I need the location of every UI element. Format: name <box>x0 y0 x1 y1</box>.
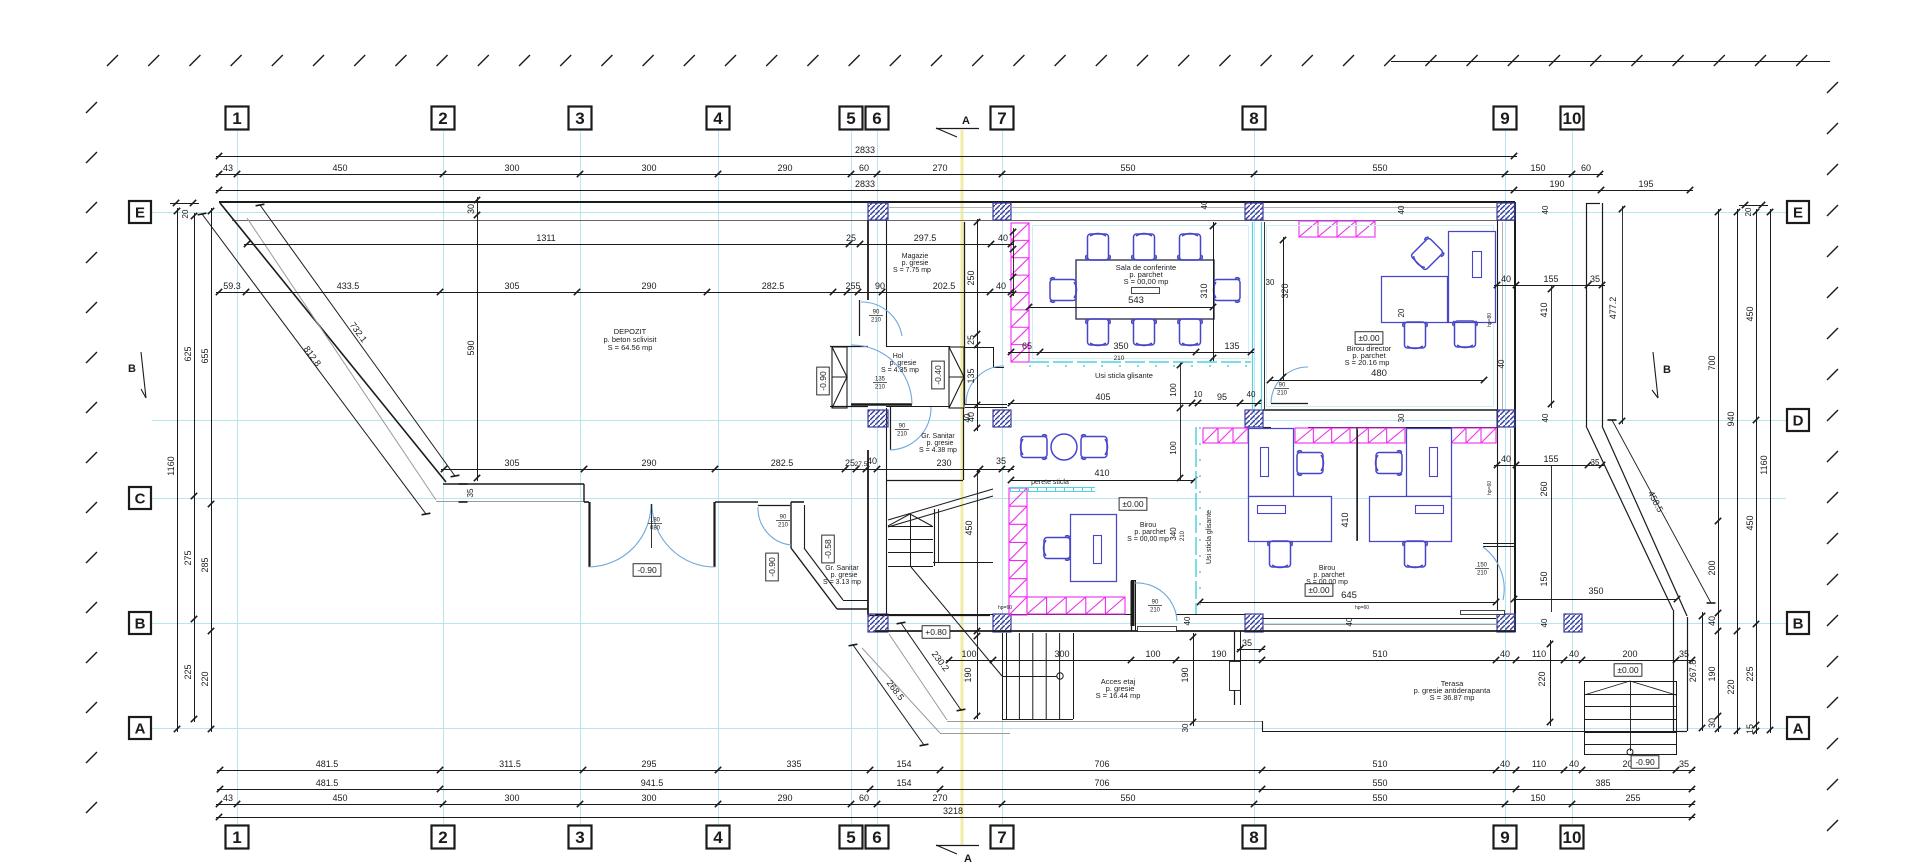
window sill lines right wall <box>1502 222 1504 409</box>
pier hatch grid9 bottom <box>1497 614 1515 632</box>
svg-text:550: 550 <box>1372 793 1387 803</box>
svg-text:35: 35 <box>466 488 475 497</box>
svg-text:20: 20 <box>181 209 190 218</box>
svg-text:405: 405 <box>1095 392 1110 402</box>
svg-text:1160: 1160 <box>1759 455 1769 474</box>
dimension column interior 30 590 at grid 3 <box>477 197 479 481</box>
svg-text:43: 43 <box>223 163 233 173</box>
svg-text:40: 40 <box>1501 274 1511 284</box>
partition between birou rooms <box>1356 428 1358 541</box>
dimension 20 top right <box>1742 202 1748 208</box>
wall central vertical (grid 5-6) <box>867 220 869 300</box>
pier hatch isolated terasa <box>1564 614 1582 632</box>
svg-text:300: 300 <box>641 793 656 803</box>
grid letter bubbles left <box>129 201 151 223</box>
svg-text:190: 190 <box>963 667 973 682</box>
svg-text:645: 645 <box>1341 590 1357 601</box>
svg-text:2833: 2833 <box>855 179 875 189</box>
chairs birou right set A <box>1297 451 1324 476</box>
grid letter bubbles right <box>1787 201 1809 223</box>
svg-text:hp=60: hp=60 <box>998 605 1012 611</box>
svg-text:S = 36.87 mp: S = 36.87 mp <box>1430 693 1475 702</box>
svg-text:3: 3 <box>575 828 584 847</box>
stair handrail with circle <box>1002 676 1057 678</box>
svg-text:p. parchet: p. parchet <box>1313 572 1344 579</box>
svg-text:410: 410 <box>1094 468 1109 478</box>
svg-text:59.3: 59.3 <box>223 281 241 291</box>
svg-text:295: 295 <box>641 759 656 769</box>
svg-text:100: 100 <box>961 649 976 659</box>
dimension 100 100 vertical corridor <box>1180 362 1182 481</box>
pier hatch grid5-6 bottom <box>868 614 888 632</box>
wall sala/director divider (cyan glass) <box>1252 222 1254 409</box>
dimension column right 700 200 40 190 30 <box>1718 209 1720 732</box>
svg-text:B: B <box>135 615 146 632</box>
svg-text:S = 00,00 mp: S = 00,00 mp <box>1124 277 1169 286</box>
svg-text:35: 35 <box>1242 638 1252 648</box>
svg-text:543: 543 <box>1128 295 1144 306</box>
wall gr.sanitar west jamb <box>790 502 792 548</box>
svg-text:230: 230 <box>936 458 951 468</box>
wall right outer <box>1514 202 1516 632</box>
svg-text:200: 200 <box>1707 560 1717 575</box>
svg-text:190: 190 <box>1211 649 1226 659</box>
section line A-A (yellow) <box>961 130 964 846</box>
svg-text:Usi sticla glisante: Usi sticla glisante <box>1206 510 1213 564</box>
dimension column right 1160 <box>1770 209 1772 733</box>
elevation label -0.90 grsanitar rotated <box>766 553 779 581</box>
svg-text:p. gresie: p. gresie <box>831 572 858 579</box>
svg-text:Birou: Birou <box>1140 522 1156 529</box>
svg-text:210: 210 <box>871 318 882 324</box>
svg-text:320: 320 <box>1280 283 1290 298</box>
svg-text:1311: 1311 <box>536 233 555 243</box>
dimension 65 350 135 under sala <box>1008 352 1254 354</box>
svg-text:260: 260 <box>1539 481 1549 496</box>
svg-text:3: 3 <box>575 109 584 128</box>
svg-text:190: 190 <box>1549 179 1564 189</box>
svg-text:080: 080 <box>650 526 661 532</box>
svg-text:305: 305 <box>504 458 519 468</box>
wall birou-director bottom <box>1263 409 1497 411</box>
dimension row top 2833 <box>216 156 1517 158</box>
svg-text:E: E <box>1793 204 1803 221</box>
svg-text:40: 40 <box>1541 205 1550 214</box>
pier hatch grid8 bottom <box>1245 614 1263 632</box>
svg-text:300: 300 <box>504 163 519 173</box>
svg-text:40: 40 <box>1500 759 1510 769</box>
wall jamb door lower birou <box>1131 580 1133 631</box>
svg-text:225: 225 <box>183 664 193 679</box>
svg-text:270: 270 <box>932 793 947 803</box>
wall depozit bottom mid segment <box>584 501 589 503</box>
elevation label -0.90 magazie rotated <box>817 367 830 395</box>
pier hatch grid8 mid <box>1245 410 1263 427</box>
svg-text:210: 210 <box>1477 571 1488 577</box>
svg-text:350: 350 <box>1113 341 1128 351</box>
section marker A top <box>936 128 979 130</box>
elevation label -0.58 rotated <box>822 535 835 563</box>
svg-text:481.5: 481.5 <box>316 778 339 788</box>
svg-text:±0.00: ±0.00 <box>1358 333 1379 343</box>
dimension row top segments 43..60 <box>216 174 1603 176</box>
svg-text:65: 65 <box>1022 341 1032 351</box>
svg-text:385: 385 <box>1595 778 1610 788</box>
terasa entry stair SE <box>1585 682 1677 755</box>
grid axis horizontal lines (cyan) <box>152 212 1786 214</box>
elevation label -0.90 depozit door <box>633 564 661 577</box>
svg-text:+0.80: +0.80 <box>925 627 947 637</box>
door gr.sanitar lower <box>758 505 790 507</box>
svg-text:210: 210 <box>778 523 789 529</box>
dimension 40 ticks on glass wall sala <box>1013 228 1015 296</box>
pier hatch grid8 top <box>1245 203 1263 220</box>
dimension 645 birou <box>1200 602 1496 604</box>
svg-text:154: 154 <box>896 759 911 769</box>
dimension column left 625 275 225 <box>194 213 196 722</box>
svg-text:20: 20 <box>1744 207 1753 216</box>
dimension 405 10 95 40 corridor <box>1008 403 1261 405</box>
svg-text:90: 90 <box>1152 600 1159 606</box>
magenta hatch birou lower-left L horizontal <box>1027 597 1125 614</box>
svg-text:4: 4 <box>713 109 723 128</box>
svg-text:40: 40 <box>1247 390 1256 399</box>
conference chairs bottom row <box>1086 319 1111 346</box>
dimension 450 stair <box>977 470 979 634</box>
svg-text:p. parchet: p. parchet <box>1134 529 1165 536</box>
dimension diagonal 812.8 (slanted wall) <box>202 214 426 514</box>
svg-text:Hol: Hol <box>893 353 904 360</box>
pier hatch grid5-6 mid <box>868 410 888 427</box>
dimension 350 near terasa door <box>1514 599 1677 601</box>
svg-text:7: 7 <box>997 109 1006 128</box>
svg-text:±0.00: ±0.00 <box>1122 499 1143 509</box>
svg-text:9: 9 <box>1500 109 1509 128</box>
desk lower-left birou <box>1071 515 1117 582</box>
svg-text:-0.90: -0.90 <box>767 557 777 577</box>
svg-text:941.5: 941.5 <box>641 778 664 788</box>
svg-text:90: 90 <box>780 515 787 521</box>
svg-text:9: 9 <box>1500 828 1509 847</box>
svg-text:270: 270 <box>932 163 947 173</box>
svg-text:90: 90 <box>875 281 885 291</box>
elevation label +0.80 stairs <box>922 626 950 639</box>
dimension 480 birou director <box>1270 380 1484 382</box>
svg-text:30: 30 <box>1397 413 1406 422</box>
magenta hatch birou top strips <box>1203 428 1248 443</box>
svg-text:290: 290 <box>777 163 792 173</box>
dimension diagonal 732.1 (slanted wall) <box>260 205 455 476</box>
svg-text:7: 7 <box>997 828 1006 847</box>
svg-text:40: 40 <box>1397 205 1406 214</box>
svg-text:311.5: 311.5 <box>499 759 521 769</box>
dimension row interior 305 290 282.5 25 27.5 40 230 35 <box>441 469 1014 471</box>
svg-text:210: 210 <box>1180 530 1186 541</box>
svg-text:90: 90 <box>873 310 880 316</box>
wall top outer <box>219 201 1515 203</box>
svg-text:200: 200 <box>1622 649 1637 659</box>
terasa outline <box>947 721 1262 723</box>
svg-text:110: 110 <box>1532 649 1546 659</box>
svg-text:550: 550 <box>1372 163 1387 173</box>
svg-text:150: 150 <box>1530 163 1545 173</box>
grid axis vertical lines (cyan) <box>237 131 239 824</box>
wall top inner <box>232 220 1515 222</box>
pier hatch grid9 mid <box>1497 410 1515 427</box>
svg-text:480: 480 <box>1371 368 1387 379</box>
dimension row bottom 481.5 941.5 154 706 550 385 <box>217 789 1695 791</box>
dimension 543 conference <box>1029 307 1213 309</box>
dimension column left 1160 <box>177 208 179 732</box>
svg-text:90: 90 <box>1279 383 1286 389</box>
svg-text:450: 450 <box>1745 515 1755 530</box>
svg-text:35: 35 <box>1591 458 1600 467</box>
svg-text:60: 60 <box>859 163 869 173</box>
svg-text:210: 210 <box>1277 391 1288 397</box>
svg-text:290: 290 <box>641 281 656 291</box>
svg-text:20: 20 <box>1397 308 1406 317</box>
svg-text:Gr. Sanitar: Gr. Sanitar <box>921 433 955 440</box>
door birou right to terasa <box>1483 547 1504 600</box>
svg-text:220: 220 <box>1726 679 1736 694</box>
dimension row terasa 100 300 100 190 510 40 110 40 200 35 <box>946 660 1695 662</box>
svg-text:p. gresie: p. gresie <box>902 260 929 267</box>
dimension 40 155 35 / 410 right side <box>1494 285 1605 287</box>
svg-text:30: 30 <box>1266 278 1275 287</box>
svg-text:297.5: 297.5 <box>914 233 937 243</box>
svg-text:B: B <box>1663 364 1671 376</box>
svg-text:550: 550 <box>1120 793 1135 803</box>
svg-text:1: 1 <box>232 109 241 128</box>
exterior stair acces etaj <box>1006 633 1008 719</box>
svg-text:190: 190 <box>1707 666 1717 681</box>
wall slanted left inner (gray) <box>247 218 436 500</box>
section marker A bottom <box>936 845 979 847</box>
svg-text:340: 340 <box>1169 527 1178 541</box>
conference chair right <box>1214 278 1241 303</box>
grid bubbles bottom row <box>226 826 249 849</box>
pier hatch grid7 mid <box>993 410 1011 427</box>
wall step at depozit bottom <box>583 484 585 502</box>
dimension row bottom 3218 <box>216 817 1695 819</box>
corridor door threshold <box>965 404 1007 406</box>
svg-text:155: 155 <box>1543 454 1558 464</box>
svg-text:290: 290 <box>777 793 792 803</box>
window sill lines top wall <box>888 207 993 209</box>
magenta hatch birou director top <box>1299 221 1375 237</box>
pier hatch grid9 top <box>1497 203 1515 220</box>
svg-text:135: 135 <box>1224 341 1239 351</box>
door lower-left birou <box>1131 581 1135 626</box>
chairs director south <box>1403 322 1428 349</box>
wall gr.sanitar bottom horizontal <box>837 608 868 610</box>
wall gr.sanitar upper room <box>886 480 963 482</box>
svg-text:±0.00: ±0.00 <box>1308 585 1329 595</box>
svg-text:210: 210 <box>875 385 886 391</box>
svg-text:40: 40 <box>996 281 1006 291</box>
svg-text:282.5: 282.5 <box>771 458 794 468</box>
dimension 20 top left <box>173 200 179 206</box>
dimension 310 conference <box>1213 222 1215 361</box>
svg-text:220: 220 <box>1537 671 1547 686</box>
svg-text:43: 43 <box>223 793 233 803</box>
svg-text:180: 180 <box>650 518 661 524</box>
svg-text:S = 4.35 mp: S = 4.35 mp <box>881 367 919 374</box>
svg-text:E: E <box>135 204 145 221</box>
chairs birou right set B <box>1376 451 1403 476</box>
pier hatch grid5-6 top <box>868 203 888 220</box>
svg-text:15: 15 <box>1745 724 1755 734</box>
svg-text:4: 4 <box>713 828 723 847</box>
elevation label -0.90 terasa entry <box>1631 756 1659 769</box>
svg-text:Gr. Sanitar: Gr. Sanitar <box>825 565 859 572</box>
border hatch ticks right <box>1827 82 1838 93</box>
dimension column left 655 285 220 <box>211 208 213 732</box>
svg-text:706: 706 <box>1094 759 1109 769</box>
door depozit double leaves <box>588 502 590 567</box>
svg-text:-0.90: -0.90 <box>637 565 657 575</box>
desks birou right room set B <box>1407 429 1452 497</box>
svg-text:90: 90 <box>899 424 906 430</box>
svg-text:Birou: Birou <box>1319 565 1335 572</box>
svg-text:Magazie: Magazie <box>902 253 929 260</box>
door birou director <box>1271 403 1308 405</box>
stair stringer diagonals <box>888 489 993 520</box>
svg-text:60: 60 <box>1581 163 1591 173</box>
svg-text:706: 706 <box>1094 778 1109 788</box>
svg-text:2: 2 <box>438 828 447 847</box>
pier hatch grid7 bottom <box>993 614 1011 632</box>
dimension 458.5 diagonal right <box>1612 420 1711 603</box>
inner outline birou director (pale cyan) <box>1267 226 1494 407</box>
svg-text:100: 100 <box>1169 383 1178 397</box>
wall right terasa door area <box>1483 543 1514 545</box>
svg-text:10: 10 <box>1563 109 1582 128</box>
svg-text:S = 3.13 mp: S = 3.13 mp <box>823 579 861 586</box>
svg-text:p. gresie: p. gresie <box>890 360 917 367</box>
svg-text:195: 195 <box>1638 179 1653 189</box>
svg-text:255: 255 <box>1625 793 1640 803</box>
svg-text:940: 940 <box>1726 411 1736 426</box>
svg-text:275: 275 <box>183 550 193 565</box>
svg-text:450: 450 <box>332 793 347 803</box>
svg-text:481.5: 481.5 <box>316 759 339 769</box>
wall stub below grid8 (terasa) <box>1234 631 1236 705</box>
svg-text:B: B <box>128 363 136 375</box>
svg-text:hp=60: hp=60 <box>1355 605 1369 611</box>
svg-text:135: 135 <box>966 368 976 383</box>
svg-text:8: 8 <box>1249 109 1258 128</box>
svg-text:35: 35 <box>1679 759 1689 769</box>
svg-text:30: 30 <box>466 204 476 214</box>
wall right inner <box>1497 220 1499 614</box>
svg-text:5: 5 <box>846 109 855 128</box>
svg-text:550: 550 <box>1120 163 1135 173</box>
svg-text:35: 35 <box>996 456 1006 466</box>
elevation label +-0.00 terasa entry <box>1614 664 1642 677</box>
door hol triangles left (frame section) <box>832 347 847 408</box>
svg-text:100: 100 <box>1145 649 1160 659</box>
door hol (into depozit side) <box>851 403 912 406</box>
plot boundary double line right (vertical+slant) <box>1586 203 1588 426</box>
svg-text:700: 700 <box>1707 355 1717 370</box>
svg-text:550: 550 <box>1372 778 1387 788</box>
svg-text:433.5: 433.5 <box>337 281 360 291</box>
svg-text:410: 410 <box>1340 512 1350 527</box>
svg-text:perete sticla: perete sticla <box>1031 479 1069 486</box>
grid bubbles top row <box>226 107 249 130</box>
svg-text:40: 40 <box>1500 649 1510 659</box>
svg-text:40: 40 <box>1540 618 1549 627</box>
svg-text:8: 8 <box>1249 828 1258 847</box>
wall stair enclosure <box>868 615 990 617</box>
chair director rotated diamond <box>1409 236 1445 272</box>
svg-text:310: 310 <box>1199 283 1209 298</box>
svg-text:255: 255 <box>845 281 860 291</box>
svg-text:450: 450 <box>1745 306 1755 321</box>
stair ramp diagonal to exterior <box>911 567 1002 676</box>
svg-text:30: 30 <box>1181 723 1190 732</box>
door gr.sanitar upper <box>890 406 892 450</box>
svg-text:40: 40 <box>1569 759 1579 769</box>
svg-text:40: 40 <box>1541 413 1550 422</box>
wall gr.sanitar top segment right of door <box>791 501 804 503</box>
svg-text:510: 510 <box>1372 759 1387 769</box>
conference chair left <box>1050 278 1077 303</box>
svg-text:40: 40 <box>1183 616 1192 625</box>
svg-text:335: 335 <box>786 759 801 769</box>
svg-text:40: 40 <box>998 233 1008 243</box>
svg-text:450: 450 <box>332 163 347 173</box>
elevation label +-0.00 birou right <box>1305 584 1333 597</box>
wall corridor nook <box>964 347 993 349</box>
svg-text:S = 16.44 mp: S = 16.44 mp <box>1096 691 1141 700</box>
wall depozit bottom left segment <box>443 483 584 485</box>
svg-text:225: 225 <box>1745 666 1755 681</box>
svg-text:S = 64.56 mp: S = 64.56 mp <box>608 343 653 352</box>
elevation label +-0.00 director <box>1355 332 1383 345</box>
wall bottom of lower rooms outer <box>875 630 1515 632</box>
svg-text:D: D <box>1793 412 1804 429</box>
dimension row bottom 43 450 300 300 290 60 270 550 550 150 255 <box>216 804 1695 806</box>
svg-text:210: 210 <box>1150 608 1161 614</box>
conference table <box>1076 260 1214 319</box>
svg-text:210: 210 <box>1114 355 1125 362</box>
border hatch ticks top <box>107 55 118 66</box>
ramp edges gray <box>889 634 947 720</box>
conference chairs top row <box>1086 234 1111 261</box>
wall gr.sanitar diagonal to stair wall <box>791 548 837 609</box>
svg-text:625: 625 <box>183 346 193 361</box>
elevation label -0.40 hol rotated <box>932 361 945 389</box>
wall hol top/bottom lines <box>830 346 868 348</box>
wall slanted left outer <box>220 203 446 482</box>
svg-text:10: 10 <box>1194 390 1203 399</box>
svg-text:p. gresie: p. gresie <box>927 440 954 447</box>
border hatch ticks left <box>86 102 97 113</box>
svg-text:100: 100 <box>1169 441 1178 455</box>
svg-text:282.5: 282.5 <box>762 281 785 291</box>
svg-text:hp=60: hp=60 <box>1487 481 1493 495</box>
svg-text:300: 300 <box>1054 649 1069 659</box>
svg-text:60: 60 <box>859 793 869 803</box>
svg-text:27.5: 27.5 <box>855 461 868 468</box>
svg-text:6: 6 <box>872 109 881 128</box>
svg-text:40: 40 <box>963 413 972 422</box>
stair up arrow <box>888 514 932 526</box>
svg-text:477.2: 477.2 <box>1608 297 1618 320</box>
dimension row top 2833 + 190 + 195 <box>216 190 1693 192</box>
